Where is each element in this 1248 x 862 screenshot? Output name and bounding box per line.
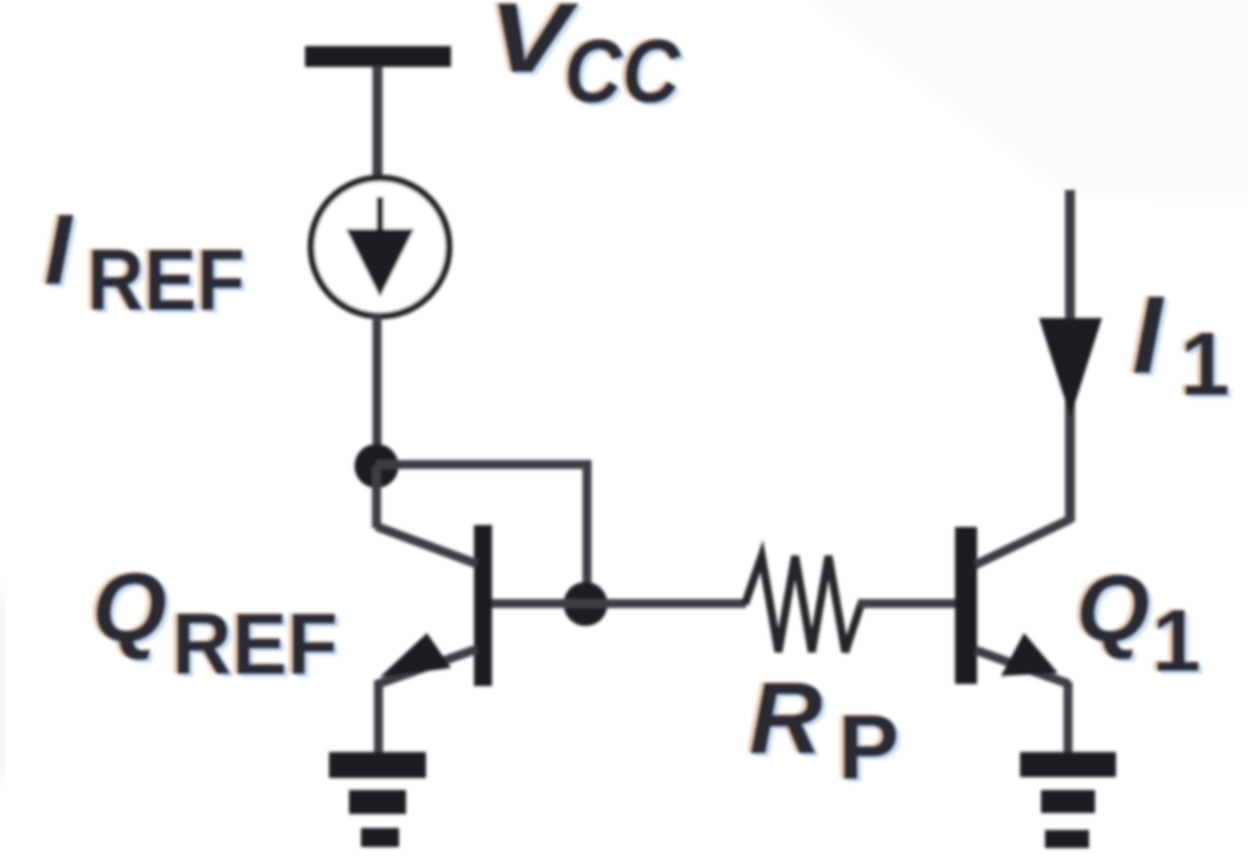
wire current source to node A [373, 313, 382, 453]
label VCC [484, 0, 686, 125]
ground symbol under QREF [329, 752, 426, 847]
wire QREF base to node B and on to resistor [492, 599, 746, 608]
current source arrow shaft [377, 197, 384, 239]
Q1 emitter diagonal [975, 650, 1069, 684]
wire node A to right (top of feedback loop) [376, 460, 591, 469]
svg-text:REF: REF [87, 232, 245, 329]
svg-text:1: 1 [1152, 591, 1201, 690]
wire node A down to collector corner [372, 466, 381, 528]
current source IREF circle [311, 178, 449, 316]
QREF emitter wire down [374, 680, 383, 756]
svg-text:I: I [1132, 274, 1165, 397]
current source arrowhead [346, 229, 414, 297]
wire resistor to Q1 base [858, 599, 956, 608]
label QREF [88, 552, 342, 696]
svg-text:Q: Q [92, 553, 167, 662]
Q1 emitter wire down [1064, 682, 1073, 754]
svg-text:P: P [838, 697, 899, 799]
transistor Q1 base bar [955, 527, 977, 684]
node A junction dot (collector of QREF) [355, 444, 399, 488]
current I1 arrowhead on collector wire [1039, 318, 1102, 417]
Q1 collector diagonal [975, 519, 1071, 565]
Q1 emitter arrowhead [1001, 633, 1058, 676]
svg-text:R: R [749, 661, 823, 775]
ground symbol under Q1 [1020, 752, 1116, 848]
svg-text:1: 1 [1180, 315, 1230, 415]
svg-text:CC: CC [564, 22, 682, 122]
page edge artifact left [0, 595, 3, 780]
svg-text:I: I [44, 194, 74, 306]
label Q1 [1072, 555, 1205, 693]
node B junction dot (base node) [564, 582, 608, 626]
svg-text:Q: Q [1076, 556, 1150, 662]
QREF emitter arrowhead [380, 633, 451, 677]
label RP [745, 660, 903, 802]
page shading top-right [801, 0, 1248, 198]
VCC supply rail bar [305, 46, 451, 67]
Q1 collector wire up [1065, 190, 1075, 522]
svg-text:REF: REF [172, 596, 338, 693]
wire VCC rail to current source [373, 66, 383, 178]
label I1 [1128, 273, 1234, 418]
wire feedback loop vertical down to node B [583, 460, 592, 596]
resistor RP zigzag [745, 556, 861, 652]
QREF emitter diagonal [378, 649, 477, 684]
transistor QREF base bar [474, 525, 492, 686]
label IREF [40, 193, 249, 332]
QREF collector diagonal [377, 527, 478, 565]
